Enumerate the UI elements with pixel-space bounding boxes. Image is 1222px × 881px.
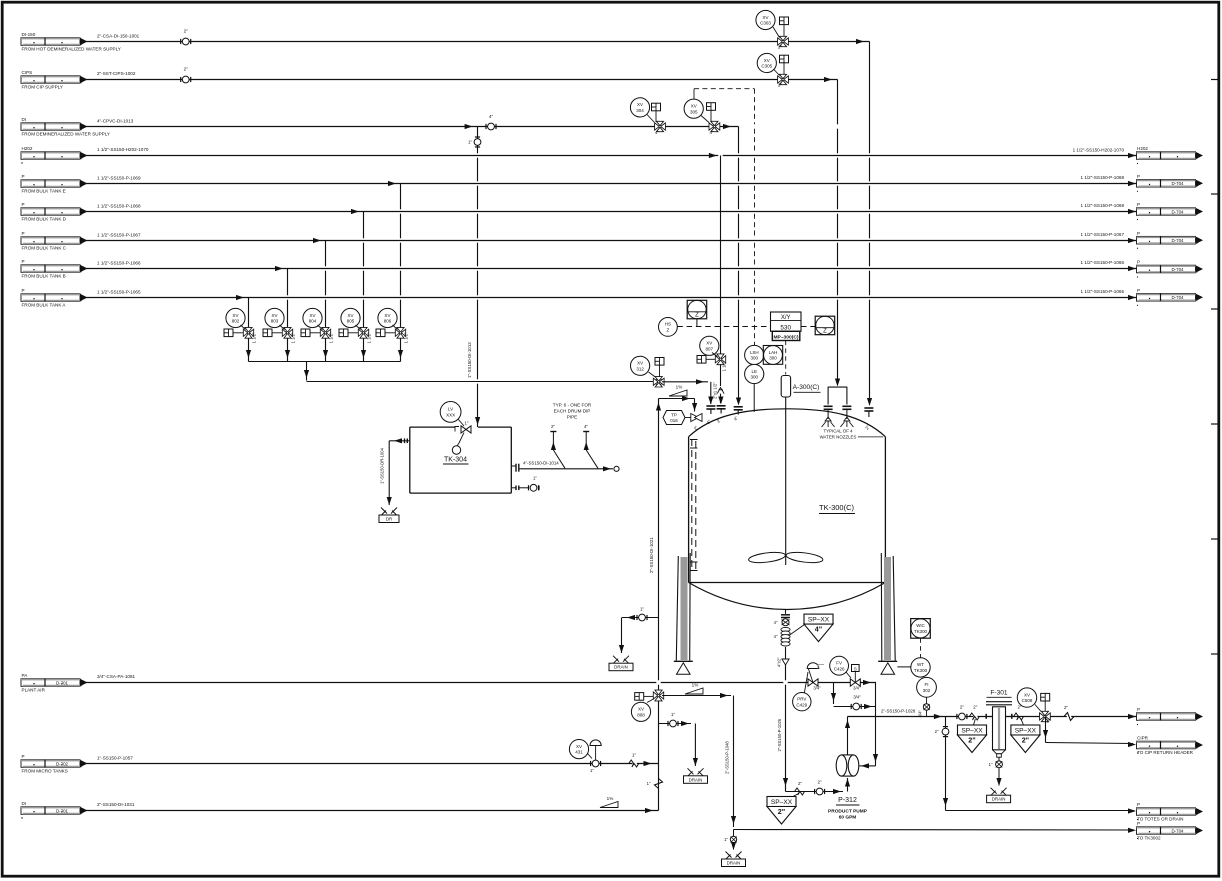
actuator XV 802: [224, 325, 246, 337]
water nozzle right: [840, 406, 853, 427]
pipe label 2-SS150-DI-1021: [649, 537, 654, 573]
actuator XV 807: [697, 353, 718, 364]
svg-text:TYPICAL OF 4: TYPICAL OF 4: [823, 428, 853, 433]
svg-text:2": 2": [778, 807, 785, 816]
tank right leg: [878, 553, 897, 674]
label MP-300C box: [772, 331, 800, 340]
pipe P bulk tank B line: [86, 266, 1137, 271]
svg-text:FROM BULK TANK E: FROM BULK TANK E: [22, 189, 66, 194]
instrument LE 300: [745, 364, 764, 411]
svg-text:1%: 1%: [676, 385, 683, 390]
svg-text:CIPR: CIPR: [1137, 736, 1149, 741]
svg-text:CIPS: CIPS: [22, 70, 33, 75]
svg-text:3/4"-CSA-PA-1081: 3/4"-CSA-PA-1081: [97, 674, 136, 679]
nozzle TK-304 hose conn: [511, 486, 528, 491]
svg-text:TO TK3002: TO TK3002: [1137, 836, 1161, 841]
actuator XV 305: [701, 103, 716, 123]
valve XV 305 body: [709, 121, 720, 135]
pipe label P-1028: [881, 708, 916, 713]
instrument FV C426: [830, 656, 851, 678]
pipe label P-1067 left: [97, 232, 141, 237]
pipe 1in drain branch upper: [619, 615, 659, 653]
svg-text:016: 016: [670, 418, 678, 423]
svg-text:1 1/2": 1 1/2": [722, 360, 727, 371]
svg-text:XXX: XXX: [446, 413, 455, 418]
agitator A-300 motor: [781, 376, 790, 398]
svg-text:1 1/2": 1 1/2": [329, 332, 334, 343]
svg-text:XV: XV: [309, 313, 315, 318]
off-page connector P-1049 to TK3002: [1137, 821, 1204, 841]
svg-text:F-301: F-301: [990, 689, 1008, 696]
svg-text:XV: XV: [1024, 692, 1030, 697]
pipe label P-1065 left: [97, 289, 141, 294]
svg-text:P: P: [22, 754, 25, 759]
svg-text:2": 2": [798, 781, 802, 786]
slope 1pct XV808 line: [685, 683, 703, 695]
svg-text:FROM BULK TANK D: FROM BULK TANK D: [22, 217, 67, 222]
valve hose connection 1in: [529, 476, 539, 492]
off-page connector DI bottom: [21, 801, 88, 819]
svg-text:XV: XV: [637, 102, 643, 107]
svg-text:D-704: D-704: [1172, 295, 1185, 300]
svg-text:DRAIN: DRAIN: [614, 665, 628, 670]
valve PRV C429 body: [804, 663, 824, 695]
svg-text:DRAIN: DRAIN: [689, 777, 703, 782]
svg-text:XV: XV: [384, 313, 390, 318]
svg-text:D-704: D-704: [1172, 267, 1185, 272]
pipe label P-1068 left: [97, 203, 141, 208]
off-page connector P-1027 to totes: [1137, 802, 1204, 822]
pipe label 2SS150-DI-1031: [97, 802, 135, 807]
svg-text:805: 805: [347, 319, 355, 324]
vessel TK-300 shell: [689, 409, 886, 610]
svg-text:1": 1": [468, 140, 472, 145]
svg-text:DI: DI: [22, 117, 27, 122]
actuator XV 803: [263, 325, 285, 337]
pipe manifold header: [249, 361, 401, 363]
svg-text:P: P: [1137, 288, 1140, 293]
valve 1in on DI branch: [468, 137, 481, 147]
svg-text:P: P: [22, 202, 25, 207]
pipe XV312 to tank nozzle: [662, 379, 713, 404]
signal dashed WIC to WT: [920, 638, 922, 657]
off-page connector P from bulk tank D: [21, 202, 88, 222]
valve XV 807 body: [715, 354, 726, 372]
pipe bypass 3/4: [831, 683, 876, 710]
svg-text:XV: XV: [691, 104, 697, 109]
instrument HS Z: [659, 318, 678, 337]
svg-text:WATER NOZZLES: WATER NOZZLES: [820, 435, 857, 440]
actuator XV C508: [1035, 693, 1050, 711]
pipe CIPR branch: [1043, 717, 1136, 748]
note typical of 4 water nozzles: [820, 428, 884, 439]
actuator XV 312: [649, 358, 665, 378]
wire DI-150 drop to tank nozzle: [867, 42, 872, 407]
svg-text:C508: C508: [1022, 698, 1033, 703]
drain DR for TK-304: [379, 508, 399, 523]
svg-text:DRAIN: DRAIN: [727, 861, 741, 866]
svg-text:TO CIP RETURN HEADER: TO CIP RETURN HEADER: [1137, 750, 1194, 755]
svg-text:TK-300(C): TK-300(C): [819, 503, 855, 512]
svg-text:HS: HS: [665, 322, 671, 327]
valve XV 807 instrument: [700, 336, 719, 355]
specialty SP-XX 2in filter outlet: [1011, 719, 1040, 753]
svg-text:P: P: [1137, 174, 1140, 179]
svg-text:P: P: [1137, 821, 1140, 826]
svg-text:FROM HOT DEMINERALIZED WATER S: FROM HOT DEMINERALIZED WATER SUPPLY: [22, 47, 121, 52]
pipe label H202 left: [97, 147, 149, 152]
svg-text:305: 305: [690, 109, 698, 114]
svg-text:2"-SS150-P-1048: 2"-SS150-P-1048: [725, 741, 730, 774]
svg-text:DI-150: DI-150: [22, 32, 36, 37]
svg-text:P: P: [1137, 202, 1140, 207]
wire CIPS drop to water nozzles: [835, 80, 840, 387]
drain DRAIN mid: [684, 768, 708, 783]
valve XV 808 body: [653, 690, 663, 701]
pipe pump suction: [786, 778, 851, 794]
wire DI drop 4in to tank nozzle: [736, 127, 741, 406]
pipe PA plant air line: [86, 680, 876, 685]
svg-text:D-704: D-704: [1172, 828, 1185, 833]
pipe P bulk tank D line: [86, 209, 1137, 214]
valve XV 304 body: [655, 121, 666, 135]
pipe label PA: [97, 674, 136, 679]
svg-text:Z: Z: [667, 328, 670, 333]
nozzle TK-304 drain: [405, 439, 410, 444]
svg-text:DRAIN: DRAIN: [992, 797, 1006, 802]
svg-text:304: 304: [636, 108, 644, 113]
svg-text:P: P: [1137, 802, 1140, 807]
svg-text:4": 4": [489, 114, 494, 119]
pipe P from micro tanks line: [86, 761, 659, 766]
off-page connector DI-150 from hot demin water: [21, 32, 121, 52]
off-page connector P from micro tanks: [21, 754, 88, 774]
valve XV 803 instrument: [265, 308, 284, 327]
wire bulk tank drop to XV 803: [285, 269, 290, 362]
svg-text:808: 808: [637, 712, 645, 717]
interlock Z square right: [815, 316, 835, 335]
svg-text:FI: FI: [925, 682, 929, 687]
svg-text:XV: XV: [576, 744, 582, 749]
svg-text:1%: 1%: [692, 683, 699, 688]
actuator XV 304: [647, 103, 661, 122]
pipe label P-1057: [97, 756, 133, 761]
svg-text:C429: C429: [796, 702, 807, 707]
valve XV 305 instrument: [684, 99, 703, 118]
wire bulk tank drop to XV 805: [361, 212, 366, 362]
pipe label P-1068 right: [1080, 203, 1124, 208]
valve XV 802 instrument: [226, 308, 245, 327]
check valve tank nozzle TP: [691, 414, 702, 432]
nozzle TK-304 dip header: [511, 464, 521, 472]
svg-text:1 1/2"-SS150-P-1067: 1 1/2"-SS150-P-1067: [97, 232, 141, 237]
svg-text:1": 1": [647, 781, 651, 786]
off-page connector CIPR to CIP return header: [1137, 736, 1204, 756]
pipe manifold drop: [304, 362, 656, 382]
pipe label P-1069 right: [1080, 175, 1124, 180]
svg-text:TK-304: TK-304: [444, 457, 467, 464]
nozzle 4in dome: [733, 407, 743, 422]
instrument LAH 300 in square: [763, 346, 782, 365]
pipe P bulk tank A line: [86, 295, 1137, 300]
nozzle 2in right dome: [864, 408, 873, 431]
valve XV 804 instrument: [303, 308, 322, 327]
svg-text:1 1/2"-SS150-P-1068: 1 1/2"-SS150-P-1068: [1080, 203, 1124, 208]
svg-text:530: 530: [780, 325, 791, 332]
valve XV C508 body: [1040, 711, 1051, 723]
svg-text:DR: DR: [386, 517, 392, 522]
filter F-301 label: [987, 689, 1012, 697]
svg-text:D-704: D-704: [1172, 238, 1185, 243]
svg-text:1": 1": [533, 476, 537, 481]
svg-text:2": 2": [184, 66, 189, 71]
filter drain: [989, 757, 1003, 786]
svg-text:1 1/2"-SS150-P-1068: 1 1/2"-SS150-P-1068: [97, 203, 141, 208]
svg-text:2": 2": [968, 736, 975, 745]
pipe label 1-SS150-DI-1013: [467, 342, 472, 378]
svg-text:Z: Z: [695, 313, 699, 319]
valve XV 312 body: [653, 377, 664, 387]
svg-text:D-704: D-704: [1172, 181, 1185, 186]
pipe TK3002 line from tee: [734, 828, 1137, 833]
pipe 1in drain branch lower: [659, 721, 699, 766]
valve XV 431 body: [588, 740, 602, 773]
drum dip pipe 2in: [550, 424, 565, 468]
svg-text:2": 2": [778, 45, 782, 50]
svg-text:EACH DRUM DIP: EACH DRUM DIP: [554, 409, 591, 414]
svg-text:FV: FV: [836, 661, 842, 666]
pipe XV808 discharge run: [662, 693, 736, 827]
svg-text:TK300: TK300: [914, 629, 927, 634]
svg-text:3/4": 3/4": [853, 686, 861, 691]
svg-text:P-312: P-312: [838, 797, 857, 804]
drain DRAIN upper left: [609, 656, 633, 671]
svg-text:1 1/2": 1 1/2": [367, 332, 372, 343]
actuator XV 804: [301, 325, 323, 337]
spec break DI riser: [647, 779, 663, 789]
valve XV C303 body: [778, 36, 789, 49]
pipe label 2CSA-DI-150: [97, 34, 140, 39]
svg-text:300: 300: [750, 356, 758, 361]
svg-text:1": 1": [724, 837, 728, 842]
svg-text:LV: LV: [448, 407, 453, 412]
valve 2in pump discharge: [957, 705, 967, 720]
off-page connector P from bulk tank C: [21, 231, 88, 251]
flex filter outlet: [1014, 705, 1024, 720]
svg-text:1 1/2"-SS150-H202-1070: 1 1/2"-SS150-H202-1070: [97, 147, 149, 152]
valve totes branch: [935, 727, 949, 737]
svg-text:2"-SS150-P-1026: 2"-SS150-P-1026: [777, 718, 782, 751]
pipe label 2SST-CIPS: [97, 71, 136, 76]
svg-text:1 1/2"-SS150-P-1066: 1 1/2"-SS150-P-1066: [97, 260, 141, 265]
svg-text:1": 1": [640, 607, 644, 612]
signal dashed HS to XY box: [677, 326, 770, 328]
svg-text:1"-SS150-DR-1004: 1"-SS150-DR-1004: [380, 447, 385, 484]
svg-text:C426: C426: [834, 666, 845, 671]
svg-text:2"-SST-CIPS-1002: 2"-SST-CIPS-1002: [97, 71, 136, 76]
off-page connector H202: [21, 146, 88, 164]
svg-text:803: 803: [271, 319, 279, 324]
valve FI root: [918, 697, 930, 717]
svg-text:FROM BULK TANK B: FROM BULK TANK B: [22, 274, 66, 279]
nozzle 2in dome XV807: [716, 406, 726, 424]
off-page connector P-1068 to D-704: [1137, 202, 1204, 220]
svg-text:2": 2": [184, 29, 189, 34]
svg-text:4": 4": [655, 130, 659, 135]
pipe label P-1069 left: [97, 175, 141, 180]
dip tube dashed in tank: [690, 439, 698, 571]
specialty SP-XX 2in suction: [767, 794, 799, 825]
wire 1in DI branch to TK-304: [475, 127, 480, 428]
tank left leg: [674, 553, 693, 674]
svg-text:WT: WT: [917, 662, 924, 667]
slope 1pct near XV312: [669, 385, 687, 397]
off-page connector PA plant air: [21, 673, 88, 693]
svg-text:XV: XV: [764, 58, 770, 63]
valve XV 431 instrument: [569, 740, 588, 759]
svg-text:302: 302: [923, 688, 931, 693]
slope 1pct on DI bottom line: [600, 796, 618, 808]
pipe DI-150 hot demin line: [86, 39, 870, 44]
pipe label P-1067 right: [1080, 232, 1124, 237]
svg-text:TP: TP: [671, 412, 677, 417]
svg-text:4": 4": [584, 424, 588, 429]
filter F-301 body: [986, 702, 1012, 758]
spec break discharge: [1064, 705, 1074, 721]
valve FV C426 body: [850, 665, 861, 691]
svg-text:3/4": 3/4": [853, 694, 861, 699]
instrument WIC TK300 square: [911, 619, 931, 639]
actuator XV 806: [376, 325, 398, 337]
svg-text:XV: XV: [638, 707, 644, 712]
svg-text:XV: XV: [271, 313, 277, 318]
water nozzle left: [822, 406, 835, 427]
svg-text:A-300(C): A-300(C): [793, 384, 820, 391]
signal dashed XV305 interlock: [694, 89, 755, 99]
svg-text:2": 2": [935, 729, 939, 734]
svg-text:1 1/2": 1 1/2": [404, 332, 409, 343]
svg-text:4": 4": [815, 625, 822, 634]
off-page connector P-1069 to D-704: [1137, 174, 1204, 192]
drum dip pipe 4in: [583, 424, 598, 468]
svg-text:2"-SS150-P-1028: 2"-SS150-P-1028: [881, 708, 916, 713]
svg-text:C303: C303: [760, 21, 771, 26]
actuator XV C305: [774, 55, 789, 75]
svg-text:1": 1": [671, 712, 675, 717]
valve suction 2in: [815, 780, 825, 795]
valve 2in on CIPS line: [181, 66, 191, 83]
label P-312: [828, 797, 868, 820]
off-page connector P-1067 to D-704: [1137, 231, 1204, 249]
svg-text:312: 312: [636, 366, 644, 371]
svg-text:LE: LE: [751, 369, 757, 374]
svg-text:4": 4": [709, 130, 713, 135]
svg-text:2": 2": [973, 705, 977, 710]
svg-text:60 GPM: 60 GPM: [839, 814, 857, 820]
valve XV C305 instrument: [757, 53, 776, 72]
flex discharge: [969, 705, 979, 720]
instrument WT TK300: [911, 658, 930, 677]
svg-text:1"-SS150-P-1057: 1"-SS150-P-1057: [97, 756, 133, 761]
svg-text:1": 1": [590, 768, 594, 773]
svg-text:300: 300: [750, 375, 758, 380]
flex joint on micro P line: [629, 752, 639, 767]
valve XV 304 instrument: [630, 98, 649, 117]
svg-text:Z: Z: [823, 329, 827, 335]
valve bypass 3/4: [851, 703, 861, 710]
svg-text:806: 806: [384, 319, 392, 324]
svg-text:SP–XX: SP–XX: [808, 617, 830, 624]
valve XV C508 instrument: [1017, 688, 1036, 707]
svg-text:P: P: [1137, 231, 1140, 236]
pipe 4in DI-1014 drum dip header: [521, 461, 619, 472]
valve XV 808 instrument: [631, 702, 650, 721]
flex suction: [795, 781, 805, 795]
valve drain bottom: [724, 830, 737, 851]
drain DRAIN bottom center: [722, 852, 746, 867]
svg-text:XV: XV: [706, 341, 712, 346]
note typ 6 drum dip: [553, 403, 592, 420]
svg-text:P: P: [1137, 707, 1140, 712]
instrument PRV C429: [793, 693, 811, 711]
instrument LSH 300: [745, 345, 764, 364]
svg-text:H202: H202: [22, 146, 33, 151]
wire DI-1021 riser: [656, 399, 661, 811]
svg-text:FROM BULK TANK A: FROM BULK TANK A: [22, 303, 67, 308]
pipe totes branch: [943, 717, 1136, 814]
specialty SP-XX 2in filter inlet: [958, 719, 987, 753]
svg-text:LSH: LSH: [750, 350, 759, 355]
label TK-300C: [819, 503, 855, 514]
svg-text:XV: XV: [762, 15, 768, 20]
signal dashed XY to Z square right: [801, 326, 815, 328]
svg-text:431: 431: [575, 750, 583, 755]
svg-text:FROM CIP SUPPLY: FROM CIP SUPPLY: [22, 85, 63, 90]
svg-text:2": 2": [1047, 719, 1051, 724]
svg-text:XV: XV: [347, 313, 353, 318]
svg-text:1 1/2"-SS150-P-1065: 1 1/2"-SS150-P-1065: [1080, 289, 1124, 294]
pipe H202 line: [86, 153, 1137, 158]
svg-text:PRV: PRV: [797, 697, 806, 702]
off-page connector P from bulk tank A: [21, 288, 88, 308]
support bracket water nozzles: [828, 387, 848, 404]
svg-text:PA: PA: [22, 673, 29, 678]
svg-text:2"-SS150-DI-1021: 2"-SS150-DI-1021: [649, 537, 654, 573]
svg-text:4"-CPVC-DI-1013: 4"-CPVC-DI-1013: [97, 118, 134, 123]
actuator XV C303: [773, 17, 789, 38]
pipe label P-1065 right: [1080, 289, 1124, 294]
pipe label P-1066 left: [97, 260, 141, 265]
wire bulk tank drop to XV 804: [323, 241, 328, 362]
off-page connector P-1066 to D-704: [1137, 260, 1204, 278]
valve XV 805 instrument: [341, 308, 360, 327]
svg-text:PLANT AIR: PLANT AIR: [22, 688, 46, 693]
off-page connector P from bulk tank B: [21, 259, 88, 279]
nozzle 6in dome: [706, 406, 716, 425]
reducer 4x2: [777, 647, 789, 667]
svg-text:H202: H202: [1137, 146, 1148, 151]
vessel TK-304: [410, 427, 512, 493]
svg-text:1 1/2": 1 1/2": [252, 332, 257, 343]
signal dashed drop to LSH: [754, 89, 756, 346]
pipe P bulk tank E line: [86, 181, 1137, 186]
valve XV C303 instrument: [756, 10, 775, 29]
svg-text:1 1/2": 1 1/2": [291, 332, 296, 343]
pump P-312 body: [836, 755, 859, 776]
actuator XV 808: [635, 693, 654, 703]
label A-300C: [793, 384, 821, 392]
svg-text:300: 300: [769, 356, 777, 361]
